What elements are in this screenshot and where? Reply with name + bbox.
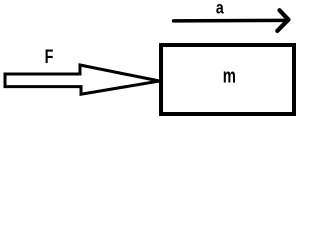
acceleration arrow a: chevron head (277, 10, 288, 31)
force arrow F: outlined block arrow (5, 65, 160, 94)
force diagram: block m pushed by force F with acceleration a (0, 0, 303, 122)
block m: rectangle (161, 45, 294, 114)
svg-text:F: F (45, 45, 54, 68)
acceleration arrow a: shaft line (174, 19, 287, 23)
svg-text:m: m (223, 64, 236, 87)
svg-text:a: a (216, 0, 225, 18)
